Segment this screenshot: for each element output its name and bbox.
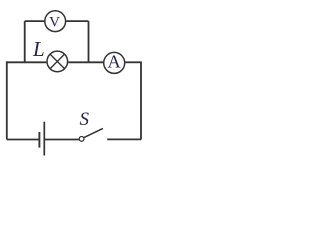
wire: right rail vertical (140, 61, 142, 139)
lamp L cross diagonal NW-SE (50, 54, 65, 69)
switch blade (open) (84, 128, 103, 137)
svg-text:L: L (32, 37, 45, 61)
svg-text:V: V (49, 15, 60, 31)
battery short plate (negative) (38, 132, 40, 148)
lamp L cross diagonal NE-SW (50, 54, 65, 69)
svg-text:A: A (107, 52, 121, 72)
switch pivot circle (79, 137, 84, 142)
wire: bottom wire left (left rail to battery) (7, 139, 40, 141)
wire: voltmeter branch left vertical (node junction on main wire to voltmeter level) (24, 21, 26, 62)
wire: main wire left segment (left rail to lamp) (7, 61, 47, 63)
wire: bottom wire from battery to switch (44, 139, 79, 141)
svg-text:S: S (80, 109, 90, 130)
wire: main wire middle segment (lamp to ammeter) (68, 61, 103, 63)
wire: voltmeter branch right horizontal out of voltmeter (66, 20, 88, 22)
wire: left rail vertical (6, 61, 8, 139)
wire: bottom wire right (switch to right rail) (107, 138, 141, 140)
lamp L circle (47, 51, 68, 72)
ammeter A circle (104, 52, 125, 73)
voltmeter U=V circle (45, 11, 66, 32)
wire: voltmeter branch left horizontal into voltmeter (25, 20, 45, 22)
circuit schematic: battery + switch S in series with lamp L and ammeter A; voltmeter V in parallel with lamp (0, 0, 149, 157)
wire: main wire right segment (ammeter to right rail) (125, 61, 141, 63)
battery long plate (positive) (43, 122, 45, 156)
wire: voltmeter branch right vertical down to main wire (88, 21, 90, 62)
